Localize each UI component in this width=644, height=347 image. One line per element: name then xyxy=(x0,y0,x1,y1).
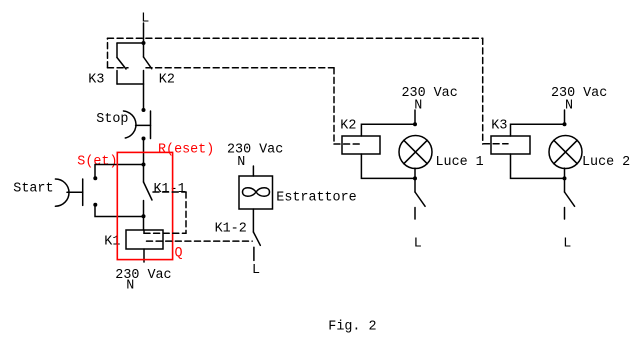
wire node B to coil K1 xyxy=(143,216,145,230)
svg-text:R(eset): R(eset) xyxy=(158,142,214,157)
wire K1 coil stub to linkage xyxy=(143,230,145,233)
contact K3 (NO) xyxy=(117,43,126,84)
svg-text:230 Vac: 230 Vac xyxy=(551,86,607,101)
wire lamp1 bottom to node D xyxy=(414,168,416,178)
svg-text:N: N xyxy=(237,155,245,170)
wire N to motor xyxy=(252,166,254,176)
svg-text:K3: K3 xyxy=(491,118,507,133)
wire N to node C xyxy=(414,110,416,124)
wire node S to K1-1 xyxy=(143,165,145,183)
motor M1 (extractor) xyxy=(239,176,273,209)
dashed link K3 contact to K3 coil xyxy=(108,38,509,144)
dashed link K1 coil to K1-2 xyxy=(147,240,253,242)
node E junction xyxy=(563,122,567,126)
svg-text:K2: K2 xyxy=(159,72,175,87)
wire node A to K3 branch xyxy=(117,42,144,44)
wire Stop to node S xyxy=(143,139,145,165)
svg-text:K1-1: K1-1 xyxy=(154,182,186,197)
wire K1-1 to node B xyxy=(143,201,145,217)
svg-text:230 Vac: 230 Vac xyxy=(115,268,171,283)
wire motor to K1-2 xyxy=(252,209,254,232)
contact K1-1 (NO) xyxy=(144,182,153,200)
wire start branch bottom xyxy=(95,207,144,217)
svg-text:S(et): S(et) xyxy=(77,155,117,170)
svg-text:N: N xyxy=(565,99,573,114)
svg-text:L: L xyxy=(141,11,149,26)
wire lamp2 bottom to node F xyxy=(564,168,566,178)
svg-text:L: L xyxy=(414,236,422,251)
wire L to node A xyxy=(143,23,145,43)
wire node D to coil K2 bottom xyxy=(361,154,415,178)
svg-text:L: L xyxy=(563,236,571,251)
wire node C to coil K2 xyxy=(361,124,415,136)
svg-text:Start: Start xyxy=(13,181,53,196)
red highlight box xyxy=(117,152,172,259)
svg-text:Luce 1: Luce 1 xyxy=(436,155,484,170)
wire main down to Stop xyxy=(143,71,145,111)
svg-text:K2: K2 xyxy=(340,118,356,133)
svg-text:L: L xyxy=(252,263,260,278)
motor M1 fan symbol xyxy=(243,188,270,197)
svg-text:Fig. 2: Fig. 2 xyxy=(328,319,376,334)
svg-text:230 Vac: 230 Vac xyxy=(227,143,283,158)
node B junction xyxy=(142,214,146,218)
node A junction xyxy=(142,41,146,45)
node S junction xyxy=(142,163,146,167)
wire coil K1 to N xyxy=(143,249,145,262)
svg-text:N: N xyxy=(126,279,134,294)
wire node F to coil K3 bottom xyxy=(511,154,565,178)
svg-text:Luce 2: Luce 2 xyxy=(582,155,630,170)
node D junction xyxy=(413,176,417,180)
wire N to node E xyxy=(564,110,566,124)
pushbutton Stop (NC) xyxy=(124,108,151,141)
svg-text:K3: K3 xyxy=(88,72,104,87)
wire node E to coil K3 xyxy=(511,124,565,136)
svg-text:Q: Q xyxy=(175,246,183,261)
switch lamp 1 (NO) xyxy=(415,178,425,219)
node C junction xyxy=(413,122,417,126)
contact K2 (NO) xyxy=(144,43,152,69)
svg-text:230 Vac: 230 Vac xyxy=(402,86,458,101)
wire start branch top xyxy=(95,165,144,177)
wire K3 bottom to main xyxy=(117,83,144,85)
pushbutton Start (NO) xyxy=(55,176,97,207)
svg-text:K1-2: K1-2 xyxy=(215,222,247,237)
lamp Luce 2 xyxy=(549,136,582,169)
coil K1 xyxy=(126,230,163,249)
switch lamp 2 (NO) xyxy=(565,178,575,219)
dashed link K1 coil to K1-1 xyxy=(144,192,186,233)
dashed link K2 contact to K2 coil xyxy=(146,68,362,144)
svg-text:Estrattore: Estrattore xyxy=(276,191,356,206)
lamp Luce 1 xyxy=(399,136,432,169)
contact K1-2 (NO) xyxy=(253,232,260,260)
coil K2 xyxy=(342,136,380,154)
svg-text:Stop: Stop xyxy=(96,112,128,127)
coil K3 xyxy=(491,136,530,154)
node F junction xyxy=(563,176,567,180)
